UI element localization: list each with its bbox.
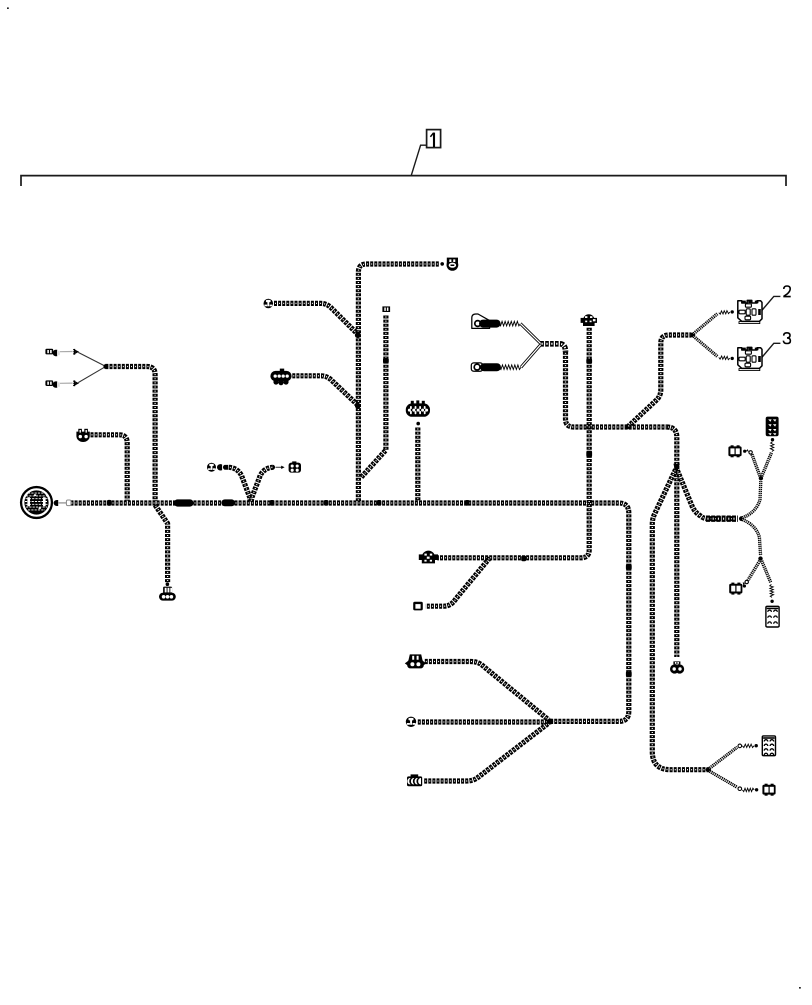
cable top diagonal <box>520 324 540 344</box>
grid connector white mid right <box>766 606 779 627</box>
wire sensor drop x589 through trunk to bottom-left run <box>437 328 589 558</box>
ring sensor connector top run <box>447 258 459 271</box>
2-pin connector upper right <box>728 445 741 457</box>
round 2-pin connector x677 <box>670 661 684 673</box>
splice junction y427 at x627 <box>625 425 629 429</box>
wire from 3-slot connector to X splice <box>425 662 549 720</box>
tape wrap on trunk small c <box>324 500 329 506</box>
tape wrap on trunk small a <box>107 500 111 506</box>
splice junction lower pigtail <box>758 556 762 560</box>
small 2-slot connector <box>382 306 390 312</box>
tape wrap on right turn-down upper <box>626 564 632 570</box>
tape wrap on trunk small e <box>465 500 470 506</box>
splice junction thin leads <box>103 364 108 369</box>
rope to 2pin connector upper <box>752 454 760 476</box>
leader line to label 1 <box>411 145 426 175</box>
striped 4-slot connector <box>407 774 422 786</box>
thin lead V right <box>276 466 283 468</box>
rope down-right bottom Y <box>710 771 738 787</box>
wire end dot 2pin lower <box>743 584 746 587</box>
rope to connector 2 <box>694 314 718 334</box>
arrow plug B <box>73 380 78 386</box>
coil to connector 3 <box>719 356 730 360</box>
splice junction X bottom <box>547 719 553 725</box>
splice junction on riser lower <box>355 403 361 409</box>
pigtail curl lower-left <box>745 580 748 583</box>
wire branch from round connector to riser <box>274 303 358 334</box>
coil to 2pin upper <box>746 450 748 452</box>
boot sleeve top <box>483 320 497 328</box>
splice junction on riser upper <box>355 332 361 338</box>
round bulkhead connector left end <box>20 486 53 519</box>
wire end dot top run <box>440 262 444 266</box>
thin lead plug B to splice <box>78 367 105 383</box>
pigtail curl bottom Y lower <box>738 787 742 791</box>
connector 2 housing <box>738 300 762 323</box>
arrow plug A <box>73 349 78 355</box>
splice junction bottom Y <box>706 767 711 772</box>
coil to grid upper <box>770 442 774 452</box>
cable bottom diagonal <box>521 345 541 367</box>
rope to grid connector lower <box>762 561 771 583</box>
square connector x418 <box>413 602 423 611</box>
arrow dot V right <box>281 466 284 469</box>
bullet plug A body <box>45 349 59 356</box>
wire end dot connector 2 <box>731 310 734 313</box>
dome 2-tab connector <box>76 429 89 442</box>
rope to 2pin connector lower <box>748 561 760 581</box>
wire V drop left half <box>229 467 251 501</box>
wire banded segment after battery Y <box>540 344 565 352</box>
eared connector x428 <box>419 551 438 564</box>
2-pin connector bottom right <box>762 784 775 796</box>
wire drop from small 2-slot connector x386 <box>361 316 386 478</box>
2-pin connector mid right <box>729 583 742 595</box>
wire branch to connector at x127 <box>91 435 128 501</box>
eared sensor connector x589 <box>581 314 597 326</box>
leader line to label 3 <box>761 343 780 358</box>
rope up-right bottom Y <box>710 747 738 768</box>
pigtail curl upper-left <box>749 451 752 454</box>
registration dot bottom-right <box>799 987 801 989</box>
wire end dot bottom Y upper <box>755 744 758 747</box>
leader line to label 2 <box>761 296 780 311</box>
grid connector black upper <box>766 417 779 437</box>
pill 3-pin connector <box>159 587 176 601</box>
pigtail crescent at bulkhead <box>54 500 59 506</box>
wire riser x565 down to y427 run <box>566 352 667 427</box>
connector 3 housing <box>738 347 762 370</box>
oval 4-pin connector <box>270 369 291 386</box>
wire end dot bottom Y lower <box>755 788 758 791</box>
coil to grid lower <box>770 584 774 597</box>
wire diagonal to right distribution run <box>677 471 736 519</box>
grid connector white bottom right <box>762 736 775 756</box>
rope up from distribution splice <box>742 481 761 518</box>
terminal C symbol V left <box>217 464 222 470</box>
wire branch to square connector <box>426 558 490 606</box>
wire end dot 2pin upper <box>743 450 746 453</box>
tape wrap on trunk medium <box>225 499 232 506</box>
wire end dot 3-pin pill <box>166 582 170 586</box>
wire elbow into long drop x677 <box>667 427 677 657</box>
wire diagonal to riser x652 <box>652 470 707 770</box>
wire V drop right half <box>251 467 273 501</box>
round connector top branch <box>264 299 274 309</box>
round connector x411 <box>406 717 416 727</box>
round connector V left <box>207 463 216 472</box>
thin lead plug A <box>60 351 73 353</box>
wire diagonal up to connectors 2-3 feeder <box>628 335 692 427</box>
wire branch from 4-pin oval to riser <box>292 376 357 405</box>
tape wrap on right distribution run <box>706 516 738 522</box>
rope to grid connector upper <box>762 453 772 476</box>
tape wrap on trunk small b <box>270 500 275 506</box>
tape wrap on trunk small d <box>377 500 382 506</box>
eyelet terminal flag top <box>472 314 490 328</box>
thin lead plug A to splice <box>78 352 105 366</box>
splice junction tripod on x677 drop <box>673 464 679 473</box>
wire end dot connector 3 <box>731 357 734 360</box>
tape wrap on trunk long <box>178 499 191 506</box>
rope down from distribution splice <box>742 520 760 556</box>
tape wrap on x386 drop <box>383 358 389 363</box>
coil bottom Y lower <box>742 788 754 791</box>
tape wrap on sensor drop upper <box>586 359 592 364</box>
wire end dot grid upper <box>771 438 774 441</box>
spring loom top <box>499 321 520 326</box>
splice junction feeder 2-3 <box>690 333 695 338</box>
terminal symbol V right <box>273 465 275 470</box>
coil bottom Y upper <box>742 744 754 747</box>
terminal U symbol V left <box>223 465 228 470</box>
splice junction right distribution <box>739 516 744 521</box>
splice junction upper pigtail <box>759 476 763 480</box>
bullet plug B body <box>45 380 59 387</box>
wire end dot grid lower <box>770 600 773 603</box>
wire branch x155 down to 3-pin connector <box>155 505 168 582</box>
label 2 text <box>783 286 790 297</box>
winged 3-slot connector <box>405 654 426 668</box>
wire from striped connector to X splice <box>424 723 548 781</box>
big oval multipin connector <box>406 400 430 416</box>
label 1 text <box>430 133 434 147</box>
eyelet terminal bottom <box>471 363 482 371</box>
wire central riser x358 with top run to connector <box>358 264 438 501</box>
wire end dot big oval <box>416 422 420 426</box>
label 3 text <box>783 333 790 344</box>
wire branch x155 up-left to splice point <box>105 367 155 502</box>
thin link line at bulkhead <box>58 502 67 504</box>
rope to connector 3 <box>694 336 718 356</box>
registration dot top-left <box>7 7 9 9</box>
wire main trunk with right turn-down and bottom-left run <box>71 503 629 721</box>
wire from small round connector to X splice <box>418 719 550 724</box>
tape wrap on sensor drop lower <box>586 451 592 457</box>
spring loom bottom <box>499 365 521 370</box>
coil to connector 2 <box>719 311 730 315</box>
tape wrap on top-run segment <box>521 556 526 562</box>
thin lead plug B <box>60 382 73 384</box>
wire drop from big oval connector x418 <box>415 428 420 502</box>
label 1 box <box>427 130 441 148</box>
square 4-dot connector V right <box>289 461 301 472</box>
bracket group 1 span line <box>21 176 786 186</box>
boot sleeve bottom <box>484 363 497 371</box>
tape wrap on right turn-down lower <box>626 671 632 677</box>
pigtail curl bottom Y upper <box>738 744 742 748</box>
cable tie at trunk start <box>66 500 71 506</box>
coil to 2pin lower <box>743 583 745 585</box>
